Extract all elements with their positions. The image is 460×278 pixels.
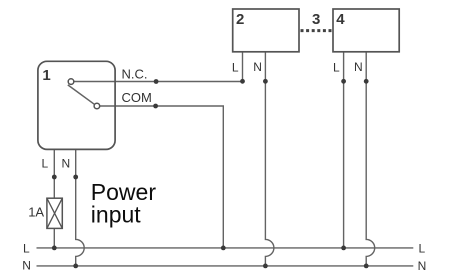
- svg-text:2: 2: [236, 11, 244, 28]
- svg-text:4: 4: [336, 11, 345, 28]
- svg-text:1A: 1A: [28, 205, 44, 220]
- svg-text:L: L: [232, 60, 239, 74]
- svg-text:N: N: [62, 157, 71, 171]
- svg-text:3: 3: [312, 11, 320, 28]
- svg-text:COM: COM: [122, 90, 152, 105]
- svg-text:L: L: [23, 241, 30, 255]
- svg-text:input: input: [91, 201, 141, 227]
- svg-text:N.C.: N.C.: [122, 67, 148, 82]
- svg-text:L: L: [42, 157, 49, 171]
- svg-text:N: N: [418, 259, 427, 273]
- svg-text:L: L: [333, 60, 340, 74]
- svg-text:1: 1: [42, 67, 50, 84]
- svg-text:N: N: [354, 60, 363, 74]
- svg-text:N: N: [22, 259, 31, 273]
- svg-text:N: N: [253, 60, 262, 74]
- svg-text:L: L: [419, 241, 426, 255]
